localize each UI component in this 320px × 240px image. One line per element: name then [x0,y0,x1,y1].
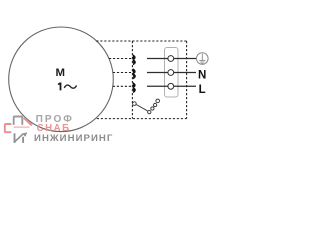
logo icon letter S (С) red [5,124,12,132]
box right edge [186,41,188,119]
earth terminal circle [197,53,209,65]
wire terminal row 3 (L) [147,85,196,87]
switch S1 lever [136,105,147,111]
switch S1 position 1 [148,110,151,113]
wire motor lead 2 [113,72,132,74]
wire motor lead 3 [113,85,132,87]
box bottom edge + link to motor [97,118,187,120]
svg-text:L: L [199,84,206,96]
connector X1 pin 3 [133,82,136,92]
terminal 1 [168,56,174,62]
wire terminal row 1 (PE) [147,58,196,60]
switch S1 position 3 [153,103,156,106]
motor label tilde [64,85,76,88]
terminal box dashed enclosure [96,41,186,119]
switch S1 position 4 [156,99,160,103]
svg-text:ИНЖИНИРИНГ: ИНЖИНИРИНГ [34,133,113,144]
motor lead dashed wires [109,59,132,87]
wire dashed link motor to box top [96,40,186,42]
logo icon letter I (И) with arrow [14,133,24,143]
svg-text:M: M [55,67,65,79]
wire terminal row 2 (N) [147,72,196,74]
logo icon red diagonal arrow [24,118,32,126]
box left edge [131,41,133,119]
switch S1 position 2 [151,107,154,110]
motor label 1 [58,83,62,91]
motor M1 circle [9,27,114,132]
connector X1 pin 1 [133,55,136,65]
wire motor lead 1 [109,58,132,60]
svg-text:N: N [198,70,206,82]
terminal 3 [168,83,174,89]
earth symbol [199,54,205,64]
terminal strip outline [165,48,179,98]
switch S1 common contact [133,102,137,106]
logo icon arrowhead [22,132,27,137]
logo icon red arrow line [14,126,30,128]
connector X1 pin 2 [133,69,136,79]
logo icon letter P (П) [14,117,23,125]
terminal 2 [168,70,174,76]
